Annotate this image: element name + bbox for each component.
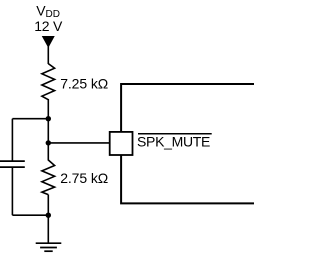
wire bottom plate to bottom rail — [11, 167, 13, 215]
wire R1 to node A — [47, 99, 49, 144]
IC outline U1 (open right side) — [121, 84, 254, 132]
svg-text:2.75 kΩ: 2.75 kΩ — [60, 170, 108, 186]
power supply triangle — [43, 37, 54, 47]
ground junction dot — [46, 213, 51, 218]
pin square SPK_MUTE — [110, 132, 133, 155]
ground symbol — [36, 243, 62, 251]
wire node A to capacitor branch — [12, 118, 48, 120]
label SPK_MUTE with overline — [138, 133, 212, 135]
capacitor C1 bottom plate — [0, 166, 25, 168]
resistor R2 2.75 k zigzag — [42, 160, 55, 195]
wire junction to ground — [47, 215, 49, 243]
wire node B to R2 — [47, 143, 49, 161]
node B junction dot (to SPK_MUTE pin) — [46, 140, 51, 145]
resistor R1 7.25 k zigzag — [42, 64, 55, 100]
node A junction dot (cap branch) — [46, 116, 51, 121]
wire bottom rail to ground junction — [12, 214, 48, 216]
svg-text:12 V: 12 V — [34, 18, 63, 34]
wire R2 to ground junction — [47, 195, 49, 216]
svg-text:7.25 kΩ: 7.25 kΩ — [60, 76, 108, 92]
wire capacitor branch down to top plate — [11, 119, 13, 161]
capacitor C1 top plate — [0, 160, 25, 162]
wire triangle to R1 — [47, 46, 49, 64]
svg-text:SPK_MUTE: SPK_MUTE — [137, 133, 210, 149]
wire node B to pin square — [48, 142, 110, 144]
